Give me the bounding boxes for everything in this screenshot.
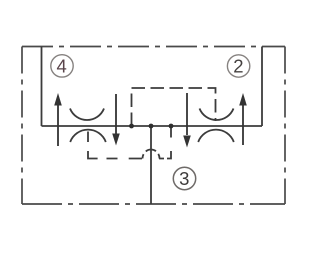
flow arrow up (right, divider path) bbox=[239, 93, 247, 145]
pilot line A (dashed: node1 up, across, down into right cup) bbox=[132, 88, 216, 126]
svg-text:2: 2 bbox=[233, 56, 243, 77]
wire: main horizontal flow line bbox=[42, 125, 263, 127]
variable orifice right upper arc (cup) bbox=[200, 109, 234, 121]
junction node 1 bbox=[129, 124, 134, 129]
wire: port 3 vertical line bbox=[150, 126, 152, 204]
pilot line B (dashed: left dome down, across, to node3) bbox=[88, 132, 143, 159]
wire: port 2 inner vertical line bbox=[261, 47, 263, 127]
port label 4 bbox=[51, 55, 73, 77]
variable orifice left lower arc (dome) bbox=[70, 130, 106, 142]
variable orifice right lower arc (dome) bbox=[198, 130, 234, 142]
variable orifice left upper arc (cup) bbox=[70, 109, 104, 121]
pilot line B hop over port 3 line bbox=[143, 150, 160, 159]
wire: port 4 inner vertical line bbox=[41, 47, 43, 127]
flow arrow down (right, combiner path) bbox=[183, 93, 191, 148]
port label 2 bbox=[227, 55, 249, 77]
junction node 2 bbox=[149, 124, 154, 129]
flow arrow up (left, divider path) bbox=[54, 93, 62, 146]
port label 3 bbox=[173, 167, 195, 189]
envelope bottom edge bbox=[22, 203, 285, 205]
pilot line B right segment up to node 3 bbox=[159, 126, 171, 159]
flow arrow down (left, combiner path) bbox=[112, 94, 120, 146]
junction node 3 bbox=[169, 124, 174, 129]
envelope right edge bbox=[284, 47, 286, 205]
svg-text:3: 3 bbox=[179, 168, 189, 189]
envelope left edge bbox=[21, 47, 23, 205]
envelope top edge (dash-dot valve boundary) bbox=[22, 46, 285, 48]
svg-text:4: 4 bbox=[57, 55, 67, 76]
